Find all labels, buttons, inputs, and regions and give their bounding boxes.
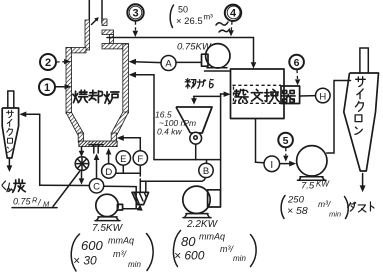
wire cyclone outlet arrow (char out) <box>8 159 10 167</box>
svg-text:H: H <box>319 91 326 102</box>
svg-text:1: 1 <box>44 82 50 94</box>
note (80mmAq x 600m3/min) <box>173 231 256 267</box>
svg-text:3: 3 <box>132 7 138 19</box>
svg-text:0.75: 0.75 <box>13 197 32 207</box>
text サイクロン right cyclone (vertical) <box>355 77 365 135</box>
svg-text:m³/: m³/ <box>220 244 234 254</box>
tag circle C <box>89 154 103 194</box>
left cyclone サイクロン <box>2 91 18 158</box>
text 焼却炉 inside furnace <box>73 90 119 104</box>
svg-text:min: min <box>128 260 141 269</box>
wire bottom horizontal to rotary valve drop <box>40 184 90 186</box>
tag circle F <box>133 151 147 165</box>
wire furnace right inlet to F <box>117 135 141 150</box>
tag circle 5 <box>278 133 293 162</box>
svg-text:7.5KW: 7.5KW <box>92 223 124 234</box>
svg-text:2.2KW: 2.2KW <box>186 219 219 230</box>
wire inlet into left cyclone <box>25 113 40 115</box>
tag circle B <box>199 160 213 178</box>
svg-text:m³: m³ <box>204 13 214 22</box>
svg-text:I: I <box>270 160 273 171</box>
tag circle 6 <box>289 55 304 86</box>
heat exchanger 熱交換器 <box>231 69 300 119</box>
label 0.75 R/M underlined with leader <box>12 172 80 209</box>
text 籾がら rice husk label <box>185 79 213 89</box>
incinerator furnace 焼却炉 walls (hatched) <box>66 0 129 147</box>
furnace right throat wall <box>111 133 116 142</box>
text 熱交換器 inside heat exchanger <box>234 89 295 102</box>
wire F down to dust funnel (part dashed) <box>139 165 141 192</box>
tag circle H <box>300 88 330 103</box>
svg-text:6: 6 <box>294 57 300 69</box>
svg-text:B: B <box>203 166 209 177</box>
right cyclone サイクロン <box>344 48 379 171</box>
svg-text:F: F <box>137 154 143 165</box>
text ダスト dust label <box>348 202 374 212</box>
note (250 x 58 m3/min) <box>281 195 348 219</box>
svg-text:C: C <box>93 182 100 193</box>
tag circle I <box>264 156 296 172</box>
svg-text:m³/: m³/ <box>318 199 332 209</box>
svg-text:E: E <box>120 154 126 165</box>
furnace right wall <box>123 44 129 113</box>
svg-text:7.5: 7.5 <box>301 181 315 192</box>
note (50 x 26.5 m3/min) top <box>170 5 229 33</box>
wire D-E junction horizontal <box>116 172 140 174</box>
wire riser into heat exchanger with arrow <box>221 93 226 95</box>
wire carrier air to feed funnel <box>194 95 221 97</box>
svg-text:D: D <box>105 167 112 178</box>
svg-text:mmAq: mmAq <box>199 232 225 242</box>
wire down from cyclone inlet <box>39 114 41 185</box>
svg-text:250: 250 <box>287 195 305 206</box>
blower 7.5KW right <box>297 146 327 181</box>
tag circle E <box>116 151 130 173</box>
furnace bottom hatched band <box>79 141 117 147</box>
feeder enclosure left wire <box>153 75 155 160</box>
furnace right shoulder <box>102 44 129 49</box>
svg-text:m³/: m³/ <box>113 249 127 259</box>
wire right blower to right cyclone <box>327 81 351 154</box>
tag circle 4 <box>225 5 241 37</box>
svg-text:4: 4 <box>230 8 237 20</box>
svg-text:min: min <box>233 254 246 263</box>
svg-text:min: min <box>329 210 341 219</box>
T-pipe under furnace bottom <box>89 145 103 153</box>
wire blower to tag A <box>177 61 202 63</box>
blower 7.5KW left <box>95 194 123 220</box>
riser wire from 2.2KW blower up to heat exchanger <box>220 94 222 190</box>
svg-text:mmAq: mmAq <box>108 236 134 246</box>
tag circle 3 <box>127 4 143 37</box>
text サイクロン left cyclone (vertical) <box>6 110 13 152</box>
furnace left taper wall <box>66 113 84 136</box>
svg-text:× 58: × 58 <box>287 205 308 217</box>
rice husk feed funnel with rotary feeder <box>176 107 212 160</box>
furnace left throat wall <box>78 133 83 142</box>
furnace neck right step horizontal <box>102 30 114 35</box>
svg-text:A: A <box>165 59 172 70</box>
second air inlet wire into furnace right wall <box>134 74 155 76</box>
furnace neck right step lower <box>110 35 114 45</box>
tag circle 1 with probe line <box>39 79 71 95</box>
svg-text:600: 600 <box>81 238 103 253</box>
rotary valve (star) 0.75R/M <box>75 147 89 185</box>
wire tag A to furnace with arrow <box>133 61 161 64</box>
svg-text:5: 5 <box>283 135 289 147</box>
svg-text:KW: KW <box>316 180 330 189</box>
blower 0.75KW (combustion air fan) <box>202 44 231 71</box>
dust outlet arrow <box>362 174 364 187</box>
dust funnel (hatched hopper) <box>132 192 149 211</box>
furnace left shoulder <box>66 48 86 53</box>
tag circle D <box>102 148 116 178</box>
svg-text:0.4 kw: 0.4 kw <box>157 127 182 137</box>
wire C branch down to funnel line <box>104 186 136 208</box>
chimney pipe right line <box>101 0 103 23</box>
furnace right taper wall <box>111 112 128 136</box>
blower 2.2KW <box>183 186 221 218</box>
svg-text:× 26.5: × 26.5 <box>176 16 203 27</box>
svg-text:× 600: × 600 <box>174 249 205 263</box>
svg-text:2: 2 <box>45 57 51 69</box>
svg-text:80: 80 <box>181 234 196 249</box>
feeder enclosure bottom wire <box>154 159 221 161</box>
feed arrow into funnel <box>193 96 195 99</box>
furnace left wall <box>66 48 72 114</box>
furnace neck left wall <box>85 20 90 50</box>
wire funnel top to B loop <box>141 178 205 192</box>
furnace chimney draft arrow <box>92 19 98 25</box>
label 16.5 / ~100rpm / 0.4kw <box>155 110 196 137</box>
note (600mmAq x 30m3/min) <box>71 234 153 272</box>
text くん炭 char label <box>2 179 25 192</box>
tag circle A <box>161 56 176 71</box>
wire flue down into heat exchanger <box>253 38 255 65</box>
svg-text:50: 50 <box>178 5 188 15</box>
tag circle 2 with dashed probe line <box>40 54 71 70</box>
chimney pipe left line <box>88 0 90 20</box>
flue gas wire furnace top to heat exchanger <box>107 37 254 39</box>
wire blower outlet to funnel tip <box>123 208 138 210</box>
wire heat exchanger bottom out <box>256 119 264 163</box>
svg-text:× 30: × 30 <box>73 254 97 268</box>
furnace neck right step upper <box>102 19 107 26</box>
